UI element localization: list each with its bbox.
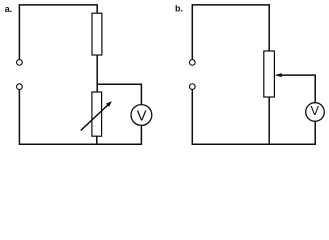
svg-text:b.: b. [175, 4, 183, 14]
svg-text:V: V [311, 103, 320, 118]
svg-text:V: V [137, 109, 147, 125]
svg-text:a.: a. [5, 4, 13, 14]
